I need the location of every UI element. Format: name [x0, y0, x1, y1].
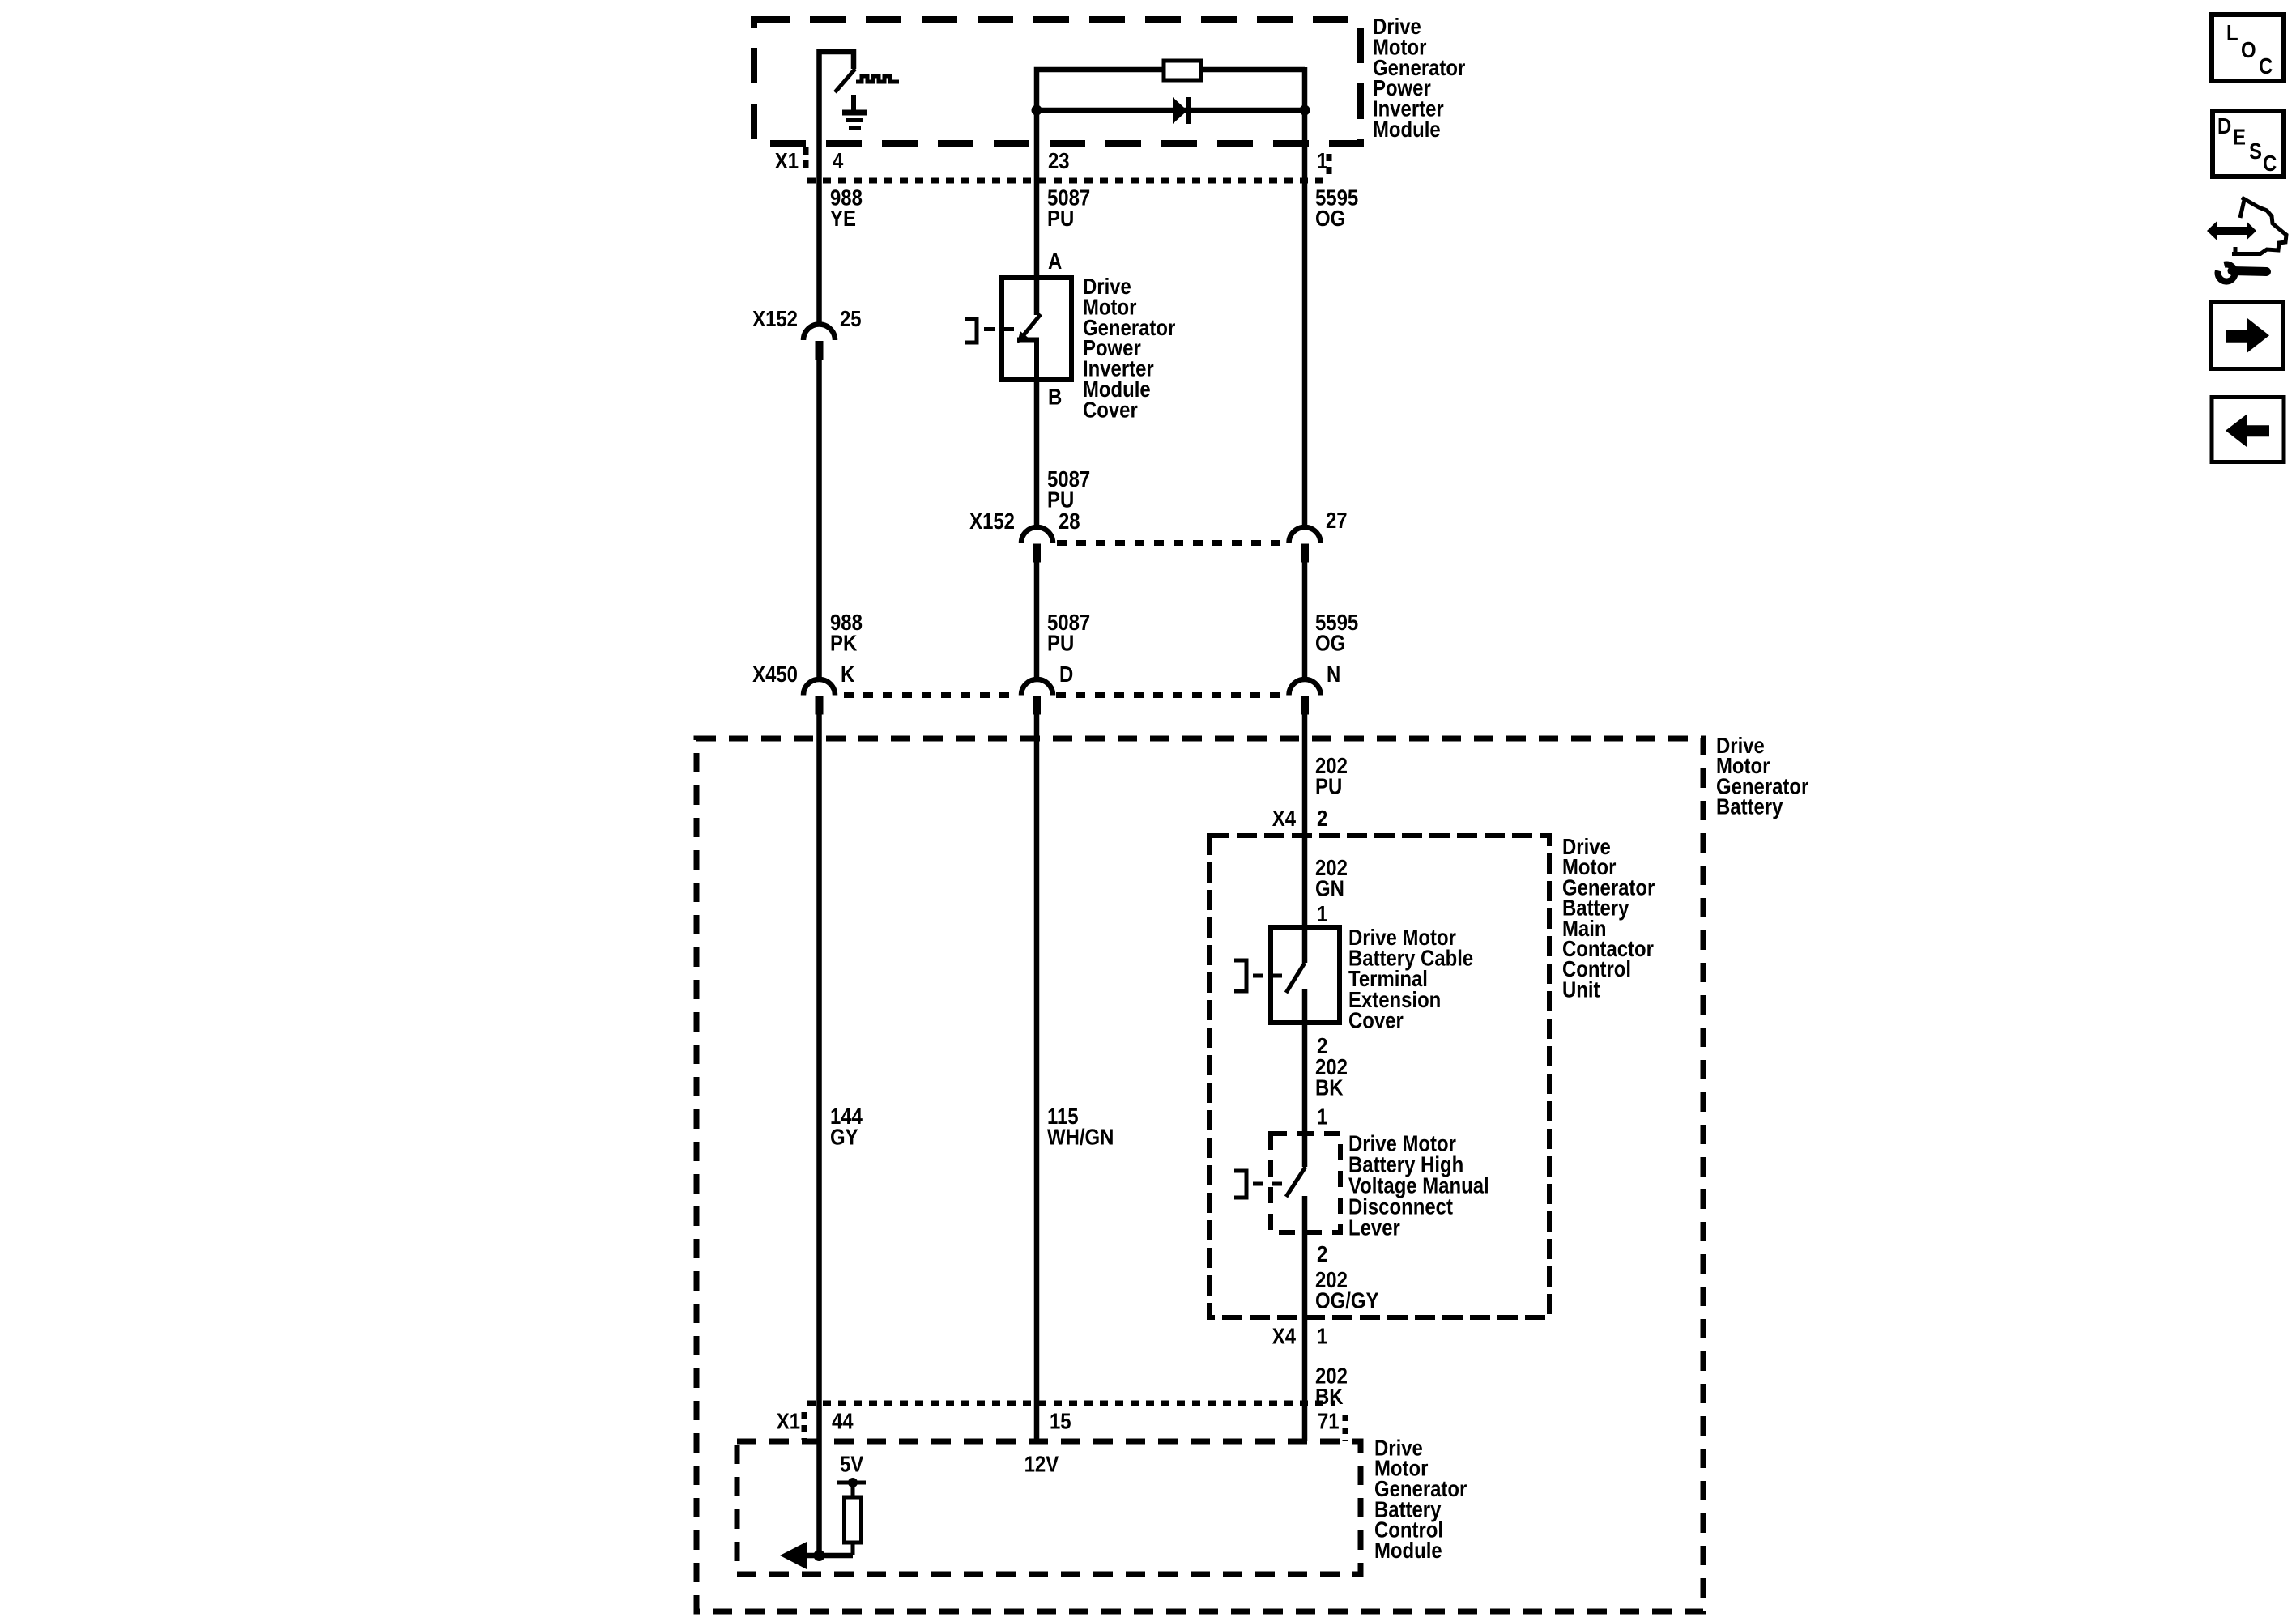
wire W1 top segment (988 YE)	[816, 49, 822, 324]
diode branch wire	[1037, 108, 1305, 113]
switch blade inside lever box	[1286, 1167, 1306, 1197]
arc D	[1021, 679, 1053, 696]
wire W1 lower segment (144 GY)	[816, 715, 822, 1556]
svg-text:44: 44	[832, 1410, 854, 1434]
wire into cover box	[1034, 278, 1040, 315]
wire between boxes	[1302, 1023, 1308, 1167]
wire W2 top corner	[1037, 70, 1164, 278]
X1 tick right	[1343, 1415, 1348, 1441]
svg-text:O: O	[2241, 39, 2256, 63]
svg-text:B: B	[1048, 385, 1062, 410]
cover actuator bracket	[965, 319, 977, 343]
svg-text:4: 4	[833, 150, 844, 174]
battery module box: Drive Motor Generator Battery	[696, 738, 1703, 1611]
svg-text:25: 25	[840, 308, 862, 332]
svg-text:1: 1	[1317, 1105, 1327, 1130]
svg-text:2: 2	[1317, 1243, 1327, 1267]
icon LOC	[2212, 15, 2284, 81]
extension cover box: Drive Motor Battery Cable Terminal Extension Cover	[1271, 927, 1340, 1023]
arc 27	[1289, 527, 1321, 543]
connector X1 row 2 dotted line	[807, 1401, 1335, 1406]
connector X450 row dotted line	[844, 692, 1018, 698]
svg-text:X152: X152	[752, 308, 798, 332]
svg-text:E: E	[2233, 126, 2246, 150]
wire W2 (5087 PU lower)	[1034, 562, 1040, 682]
wire W1 mid segment (988 PK)	[816, 360, 822, 682]
svg-text:202BK: 202BK	[1315, 1056, 1348, 1100]
arrow head	[780, 1542, 807, 1569]
double arrow	[2207, 222, 2256, 240]
svg-text:D: D	[2217, 115, 2231, 139]
svg-text:71: 71	[1318, 1410, 1340, 1434]
control module box: Drive Motor Generator Battery Control Module	[737, 1441, 1361, 1574]
icon vehicle with wrench	[2232, 198, 2286, 254]
svg-text:S: S	[2249, 140, 2262, 164]
bracket	[1234, 960, 1246, 991]
cover switch blade	[1023, 314, 1041, 336]
icon arrow left	[2212, 398, 2284, 462]
PWM square wave	[856, 76, 899, 82]
resistor R	[1164, 61, 1201, 80]
wire W3 (5595 OG lower)	[1302, 562, 1308, 682]
svg-text:X1: X1	[775, 150, 799, 174]
svg-text:2: 2	[1317, 807, 1327, 832]
svg-text:1: 1	[1317, 903, 1327, 927]
wire from resistor to W3	[1201, 67, 1305, 73]
junction dot	[814, 1550, 825, 1561]
wire below lever box	[1302, 1232, 1308, 1441]
switch blade	[835, 69, 855, 92]
svg-text:D: D	[1059, 663, 1073, 687]
disconnect lever box (dashed): Drive Motor Battery High Voltage Manual Disconnect Lever	[1271, 1134, 1340, 1232]
svg-text:X4: X4	[1272, 1325, 1297, 1349]
svg-text:144GY: 144GY	[830, 1105, 863, 1150]
5V source bar	[837, 1481, 866, 1485]
svg-text:5V: 5V	[840, 1453, 864, 1477]
connector X152 pin 25	[803, 325, 835, 341]
svg-text:L: L	[2226, 22, 2238, 46]
wire W3 lower segment (202 PU)	[1302, 715, 1308, 964]
arc N	[1289, 679, 1321, 696]
pull-up resistor	[845, 1497, 862, 1543]
wire to arrow	[802, 1553, 853, 1559]
arc K	[803, 679, 835, 696]
svg-text:C: C	[2263, 152, 2277, 177]
wire W2 lower segment (115 WH/GN)	[1034, 715, 1040, 1442]
ground symbol	[851, 95, 856, 111]
icon arrow right	[2212, 302, 2284, 369]
svg-text:C: C	[2259, 55, 2273, 79]
svg-text:28: 28	[1059, 510, 1080, 534]
svg-text:X450: X450	[752, 663, 798, 687]
wire W2 below cover box	[1034, 380, 1040, 529]
diode D	[1173, 97, 1187, 124]
svg-text:N: N	[1327, 663, 1340, 687]
svg-text:K: K	[841, 663, 855, 687]
X1 tick right	[1327, 154, 1332, 178]
cover switch bottom contact	[1017, 340, 1037, 381]
svg-text:A: A	[1048, 250, 1062, 274]
module box: Drive Motor Generator Power Inverter Module	[754, 19, 1361, 143]
svg-text:1: 1	[1317, 1325, 1327, 1349]
switch blade inside	[1286, 963, 1305, 993]
svg-text:27: 27	[1326, 509, 1348, 534]
connector X1 row 1 dotted line	[807, 178, 1329, 184]
arc 28	[1021, 527, 1053, 543]
switch to ground symbol inside inverter module	[817, 52, 854, 69]
X1 tick left	[803, 147, 809, 172]
svg-text:X4: X4	[1272, 807, 1297, 832]
bracket	[1234, 1171, 1246, 1198]
svg-text:12V: 12V	[1024, 1453, 1059, 1477]
X1 tick left	[802, 1412, 807, 1440]
svg-text:23: 23	[1048, 150, 1070, 174]
wire W3 top segment	[1302, 67, 1308, 529]
node dot left	[1032, 105, 1042, 116]
node dot right	[1300, 105, 1310, 116]
svg-text:15: 15	[1050, 1410, 1071, 1434]
icon DESC	[2213, 111, 2284, 177]
cover box: Drive Motor Generator Power Inverter Module Cover	[1002, 278, 1071, 380]
contactor box: Drive Motor Generator Battery Main Contactor Control Unit	[1209, 836, 1549, 1317]
svg-text:202GN: 202GN	[1315, 857, 1348, 901]
wrench	[2218, 265, 2267, 282]
connector X152 row 28/27 dotted line	[1057, 540, 1286, 546]
svg-text:1: 1	[1317, 150, 1327, 174]
svg-text:X1: X1	[777, 1410, 800, 1434]
svg-text:X152: X152	[969, 510, 1015, 534]
